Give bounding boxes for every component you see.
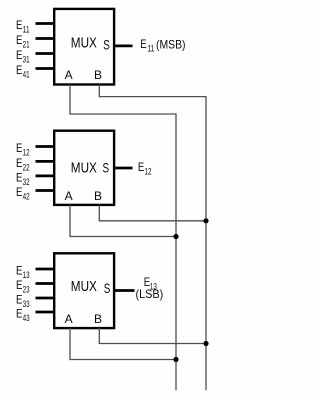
- input stub E12: [36, 145, 56, 148]
- input stub E32: [36, 174, 56, 177]
- input stub E23: [36, 282, 56, 285]
- svg-text:41: 41: [23, 70, 30, 81]
- svg-text:21: 21: [23, 40, 30, 51]
- svg-text:S: S: [103, 160, 110, 175]
- svg-text:S: S: [103, 37, 110, 52]
- svg-text:MUX: MUX: [71, 279, 97, 295]
- svg-text:11: 11: [23, 25, 30, 36]
- svg-text:E: E: [16, 48, 22, 62]
- input stub E42: [36, 189, 56, 192]
- svg-text:43: 43: [23, 313, 30, 324]
- svg-text:B: B: [94, 68, 102, 82]
- svg-text:B: B: [94, 312, 102, 326]
- svg-text:33: 33: [23, 299, 30, 310]
- mux U2 box: [54, 131, 114, 205]
- output stub S2: [114, 167, 133, 170]
- svg-text:B: B: [94, 189, 102, 203]
- wire U3 A to bus A: [70, 328, 176, 360]
- svg-text:E: E: [16, 292, 22, 306]
- input stub E33: [36, 297, 56, 300]
- svg-text:A: A: [65, 189, 73, 203]
- svg-text:A: A: [65, 68, 73, 82]
- junction U3 B: [203, 341, 208, 346]
- junction U2 B: [203, 218, 208, 223]
- junction U3 A: [173, 357, 178, 362]
- svg-text:32: 32: [23, 177, 30, 188]
- mux U1 box: [54, 9, 114, 85]
- svg-text:E: E: [16, 63, 22, 77]
- svg-text:E: E: [16, 170, 22, 184]
- svg-text:(MSB): (MSB): [156, 38, 186, 52]
- svg-text:S: S: [104, 281, 111, 296]
- input stub E13: [36, 268, 56, 271]
- svg-text:(LSB): (LSB): [136, 287, 164, 301]
- svg-text:31: 31: [23, 55, 30, 66]
- svg-text:11: 11: [147, 44, 154, 55]
- input stub E22: [36, 160, 56, 163]
- svg-text:22: 22: [23, 162, 30, 173]
- svg-text:E: E: [16, 156, 22, 170]
- input stub E43: [36, 311, 56, 314]
- svg-text:E: E: [138, 160, 144, 174]
- wire U3 B to bus B: [99, 328, 206, 344]
- junction U2 A: [173, 234, 178, 239]
- svg-text:13: 13: [23, 270, 30, 281]
- svg-text:42: 42: [23, 192, 30, 203]
- input stub E21: [36, 37, 56, 40]
- input stub E31: [36, 52, 56, 55]
- input stub E11: [36, 22, 56, 25]
- wire U1 A to bus A: [70, 85, 176, 391]
- svg-text:E: E: [16, 185, 22, 199]
- svg-text:MUX: MUX: [71, 36, 97, 52]
- svg-text:12: 12: [145, 166, 152, 177]
- svg-text:E: E: [16, 278, 22, 292]
- wire U2 A to bus A: [70, 205, 176, 237]
- mux U3 box: [54, 253, 114, 328]
- svg-text:E: E: [16, 141, 22, 155]
- svg-text:A: A: [65, 312, 73, 326]
- svg-text:12: 12: [23, 148, 30, 159]
- output stub S1: [114, 45, 133, 48]
- wire U1 B to bus B: [99, 85, 206, 391]
- svg-text:MUX: MUX: [71, 160, 97, 176]
- svg-text:E: E: [16, 306, 22, 320]
- svg-text:E: E: [16, 33, 22, 47]
- svg-text:E: E: [140, 37, 146, 51]
- input stub E41: [36, 67, 56, 70]
- svg-text:23: 23: [23, 285, 30, 296]
- output stub S3: [114, 289, 135, 292]
- wire U2 B to bus B: [99, 205, 206, 221]
- svg-text:E: E: [16, 18, 22, 32]
- svg-text:E: E: [16, 263, 22, 277]
